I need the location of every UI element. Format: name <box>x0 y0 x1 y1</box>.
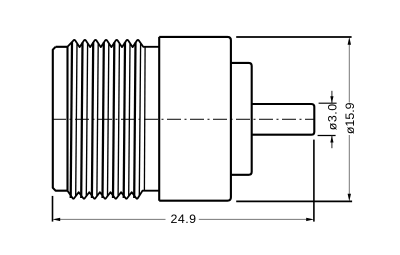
leader above for dia 3.0 <box>331 91 333 103</box>
arrowhead up at top of dia 15.9 <box>348 37 351 45</box>
thread crest profile (top zigzag) <box>68 40 160 47</box>
arrowhead left of 24.9 <box>53 218 61 221</box>
dimension line 24.9 <box>58 218 308 220</box>
svg-text:ø3.0: ø3.0 <box>325 103 339 130</box>
center pin outline (diameter 3.0) <box>252 104 315 135</box>
main body outline (diameter 15.9) <box>159 37 231 201</box>
extension line left for 24.9 <box>52 196 54 222</box>
thread flank lines (screw thread face) <box>71 42 141 198</box>
arrowhead pointing down at pin top <box>330 96 333 103</box>
collar step outline <box>231 63 252 175</box>
arrowhead down at bottom of dia 15.9 <box>348 194 351 202</box>
extension line bottom for dia 15.9 <box>236 200 352 202</box>
extension tick bottom for dia 3.0 <box>318 135 336 137</box>
extension tick top for dia 3.0 <box>319 102 337 104</box>
svg-text:24.9: 24.9 <box>170 212 196 226</box>
extension line right for 24.9 <box>313 140 315 222</box>
svg-text:ø15.9: ø15.9 <box>343 102 357 134</box>
arrowhead pointing up at pin bottom <box>330 136 333 143</box>
dimension line dia 15.9 <box>348 44 350 194</box>
flange (left shoulder) outline <box>53 47 68 191</box>
extension line top for dia 15.9 <box>236 36 351 38</box>
arrowhead right of 24.9 <box>306 218 314 221</box>
leader below for dia 3.0 <box>331 136 333 149</box>
thread runout line at right end <box>143 47 146 191</box>
centerline (axis) <box>52 118 314 120</box>
thread root profile (bottom zigzag) <box>68 191 160 199</box>
junction line between threaded section and body <box>158 37 160 201</box>
